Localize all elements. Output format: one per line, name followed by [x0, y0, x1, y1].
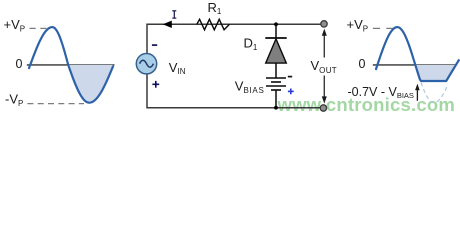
source plus sign — [152, 81, 159, 88]
Vout arrow upper — [323, 35, 325, 58]
battery Vbias plates — [266, 77, 286, 79]
ghost of clipped trough (dashed) — [421, 83, 448, 103]
diode D1 cathode bar — [265, 37, 286, 39]
diode D1 body — [266, 39, 287, 63]
left input waveform negative-half fill — [68, 65, 113, 103]
right output waveform axis — [373, 64, 456, 66]
node Vp+ dashed level (left) — [30, 27, 48, 29]
clip level arrow — [416, 90, 418, 101]
node junction bottom (battery to rail) — [274, 106, 278, 110]
right output clipped sine wave — [376, 27, 459, 81]
wire diode to top rail — [275, 24, 277, 37]
left input waveform axis — [27, 64, 115, 66]
label I — [172, 11, 176, 18]
svg-text:0: 0 — [16, 57, 23, 71]
voltage source Vin — [136, 54, 156, 74]
node Vp+ dashed level (right) — [373, 27, 394, 29]
battery plus sign — [288, 89, 294, 95]
current arrow I — [163, 21, 172, 28]
battery minus sign — [288, 76, 292, 78]
wire: top rail — [147, 24, 321, 53]
wire: bottom rail — [147, 74, 320, 108]
source minus sign — [152, 44, 157, 46]
wire diode anode to battery — [275, 63, 277, 78]
Vout arrow lower — [323, 76, 325, 98]
terminal bottom — [320, 105, 326, 111]
node Vp- dashed level (left) — [27, 103, 84, 105]
wire battery to bottom rail — [275, 90, 277, 108]
node junction top (diode to rail) — [274, 22, 278, 26]
resistor R1 — [197, 19, 230, 30]
left input sine wave — [29, 27, 113, 103]
right output waveform clipped fill — [415, 65, 456, 81]
svg-text:0: 0 — [359, 57, 366, 71]
terminal top — [321, 21, 327, 27]
